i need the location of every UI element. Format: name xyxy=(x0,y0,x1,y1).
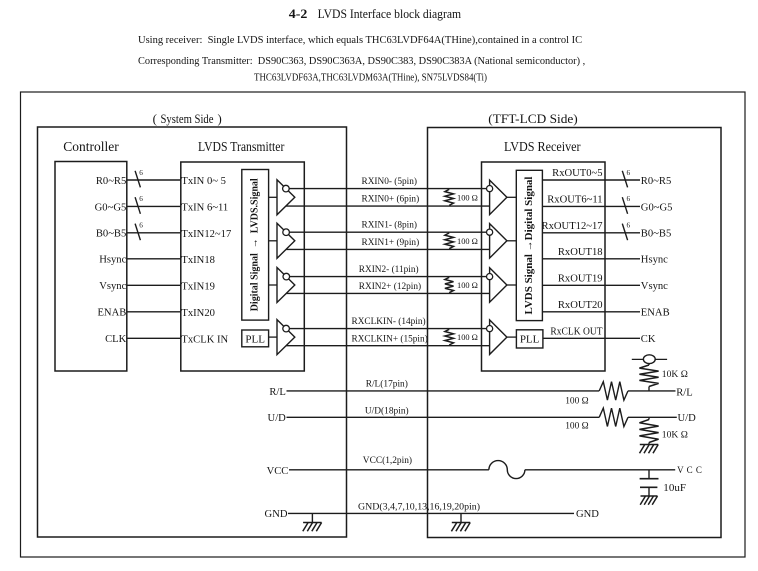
wire RXIN0+ xyxy=(286,205,490,207)
driver Q4: LVDS output buffer 4 (transmitter) xyxy=(269,320,295,355)
resistor R3: 100 ohm termination xyxy=(445,277,454,292)
svg-text:R/L: R/L xyxy=(269,387,285,398)
pin label TxIN20 xyxy=(181,308,215,319)
svg-text:U/D: U/D xyxy=(678,413,697,424)
pin label RxOUT18 xyxy=(558,247,603,258)
pin label RxOUT20 xyxy=(558,300,603,311)
wire Hsync (controller to TxIN18) xyxy=(127,258,181,260)
pin label RxCLK OUT xyxy=(550,327,603,338)
svg-text:Controller: Controller xyxy=(63,140,119,155)
svg-text:10uF: 10uF xyxy=(663,483,686,494)
svg-text:GND(3,4,7,10,13,16,19,20pin): GND(3,4,7,10,13,16,19,20pin) xyxy=(358,501,480,512)
svg-text:6: 6 xyxy=(139,195,143,203)
bus width slash 6 on R0~R5 xyxy=(135,169,143,188)
resistor R8: 10K ohm pull-down on U/D xyxy=(639,417,658,442)
value label 100 ohm (R6) xyxy=(565,421,588,431)
pin label RXIN0+ (6pin) xyxy=(362,194,420,205)
wire RxOUT18 to Hsync xyxy=(542,258,640,260)
node label G0~G5 xyxy=(641,202,673,213)
block: LVDS Transmitter xyxy=(181,140,304,371)
node label VCC (left) xyxy=(267,466,289,477)
svg-text:System Side: System Side xyxy=(161,112,214,126)
svg-text:PLL: PLL xyxy=(245,333,265,345)
node label ENAB xyxy=(641,308,670,319)
svg-text:100 Ω: 100 Ω xyxy=(457,281,478,290)
ground (below R8) xyxy=(640,443,659,454)
wire RXCLKIN- xyxy=(289,328,486,330)
svg-text:RxOUT20: RxOUT20 xyxy=(558,300,603,311)
block: TFT-LCD Side xyxy=(428,112,722,538)
resistor R7: 10K ohm pull-up on R/L xyxy=(639,364,658,391)
svg-text:CLK: CLK xyxy=(105,334,127,345)
wire G0~G5 (controller to TxIN 6~11) xyxy=(127,205,181,207)
svg-text:Vsync: Vsync xyxy=(99,281,126,292)
svg-text:6: 6 xyxy=(627,169,631,177)
svg-text:RXCLKIN- (14pin): RXCLKIN- (14pin) xyxy=(352,316,426,327)
svg-text:RXIN1- (8pin): RXIN1- (8pin) xyxy=(362,220,418,231)
wire GND (3,4,7,10,13,16,19,20pin) xyxy=(288,512,574,514)
svg-text:Digital Signal → LVDS.Signal: Digital Signal → LVDS.Signal xyxy=(249,178,261,311)
svg-text:100 Ω: 100 Ω xyxy=(457,333,478,342)
svg-text:(TFT-LCD Side): (TFT-LCD Side) xyxy=(488,112,578,126)
wire RXIN0- xyxy=(289,188,486,190)
svg-text:ENAB: ENAB xyxy=(97,308,126,319)
svg-text:R0~R5: R0~R5 xyxy=(96,176,126,187)
svg-text:RxOUT12~17: RxOUT12~17 xyxy=(542,221,603,232)
node label GND (left) xyxy=(265,509,288,520)
wire RXIN1+ xyxy=(286,248,490,250)
driver Q2: LVDS output buffer 2 (transmitter) xyxy=(269,223,295,258)
svg-text:G0~G5: G0~G5 xyxy=(641,202,673,213)
svg-text:(: ( xyxy=(153,112,157,126)
svg-text:TxIN20: TxIN20 xyxy=(181,308,215,319)
svg-text:): ) xyxy=(218,112,222,126)
wire ENAB (controller to TxIN20) xyxy=(127,311,181,313)
bus width slash 6 on B0~B5 xyxy=(622,222,630,241)
svg-text:Corresponding Transmitter: DS: Corresponding Transmitter: DS90C363, DS9… xyxy=(138,56,585,67)
svg-text:Hsync: Hsync xyxy=(99,255,126,266)
terminal: pull-up tap (circle) xyxy=(632,355,667,364)
driver Q1: LVDS output buffer 1 (transmitter) xyxy=(269,180,295,215)
svg-text:VCC(1,2pin): VCC(1,2pin) xyxy=(363,455,412,466)
svg-text:G0~G5: G0~G5 xyxy=(95,202,127,213)
pin label RXCLKIN- (14pin) xyxy=(352,316,426,327)
wire RxOUT0~5 to R0~R5 xyxy=(542,179,640,181)
node label Hsync xyxy=(641,255,668,266)
wire R/L (17pin) xyxy=(287,390,676,392)
ground (below C1) xyxy=(640,487,657,505)
pin label U/D(18pin) xyxy=(365,406,409,417)
wire RxCLK OUT to CK xyxy=(543,337,640,339)
node label R/L (left) xyxy=(269,387,285,398)
pin label RXIN1- (8pin) xyxy=(362,220,418,231)
value label 10K ohm (R7) xyxy=(662,369,688,380)
block: Controller xyxy=(55,140,127,371)
receiver buffer Q5 (LVDS input) xyxy=(487,180,517,215)
wire RxOUT12~17 to B0~B5 xyxy=(542,232,640,234)
svg-text:100 Ω: 100 Ω xyxy=(565,421,588,431)
svg-text:6: 6 xyxy=(627,222,631,230)
pin label RxOUT6~11 xyxy=(547,195,602,206)
svg-text:R/L: R/L xyxy=(676,388,692,399)
node label Vsync xyxy=(641,281,668,292)
value label 10K ohm (R8) xyxy=(662,430,688,441)
svg-text:R0~R5: R0~R5 xyxy=(641,176,671,187)
wire RXIN1- xyxy=(289,231,486,233)
ground (TFT-LCD side, on GND wire) xyxy=(451,513,470,531)
svg-text:LVDS Transmitter: LVDS Transmitter xyxy=(198,140,285,155)
value label 100 ohm (R4) xyxy=(457,333,478,342)
svg-text:6: 6 xyxy=(139,222,143,230)
bus width slash 6 on B0~B5 xyxy=(135,222,143,241)
svg-text:RxCLK OUT: RxCLK OUT xyxy=(550,327,603,338)
resistor R6: 100 ohm series (U/D) xyxy=(599,408,628,426)
svg-text:B0~B5: B0~B5 xyxy=(96,229,126,240)
resistor R4: 100 ohm termination xyxy=(445,329,454,345)
svg-text:RxOUT19: RxOUT19 xyxy=(558,274,603,285)
svg-text:GND: GND xyxy=(576,509,599,520)
svg-text:6: 6 xyxy=(139,169,143,177)
value label 100 ohm (R5) xyxy=(565,396,588,406)
node label Vsync xyxy=(99,281,126,292)
svg-text:RxOUT0~5: RxOUT0~5 xyxy=(552,168,602,179)
svg-text:TxIN 6~11: TxIN 6~11 xyxy=(181,203,228,214)
node label GND (right) xyxy=(576,509,599,520)
svg-text:RXIN2+ (12pin): RXIN2+ (12pin) xyxy=(359,281,421,292)
svg-text:RXIN0- (5pin): RXIN0- (5pin) xyxy=(362,176,418,187)
node label CLK xyxy=(105,334,127,345)
converter U2: LVDS Signal to Digital Signal xyxy=(516,170,542,320)
pin label TxIN12~17 xyxy=(181,229,231,240)
node label CK xyxy=(641,334,656,345)
value label 100 ohm (R3) xyxy=(457,281,478,290)
receiver buffer Q8 (LVDS input) xyxy=(487,320,517,355)
node label Hsync xyxy=(99,255,126,266)
svg-text:100 Ω: 100 Ω xyxy=(565,396,588,406)
node label G0~G5 xyxy=(95,202,127,213)
svg-text:TxIN12~17: TxIN12~17 xyxy=(181,229,231,240)
wire RxOUT6~11 to G0~G5 xyxy=(542,205,640,207)
receiver buffer Q7 (LVDS input) xyxy=(487,268,517,302)
pin label RXIN2- (11pin) xyxy=(359,264,419,275)
pin label VCC(1,2pin) xyxy=(363,455,412,466)
svg-text:Hsync: Hsync xyxy=(641,255,668,266)
node label U/D (left) xyxy=(268,413,287,424)
wire RXIN2+ xyxy=(286,292,489,294)
svg-text:RXCLKIN+ (15pin): RXCLKIN+ (15pin) xyxy=(352,333,428,344)
value label 10uF (C1) xyxy=(663,483,686,494)
value label 100 ohm (R2) xyxy=(457,237,478,246)
pin label RXCLKIN+ (15pin) xyxy=(352,333,428,344)
wire Vsync (controller to TxIN19) xyxy=(127,284,181,286)
wire RxOUT20 to ENAB xyxy=(542,311,640,313)
driver Q3: LVDS output buffer 3 (transmitter) xyxy=(269,268,295,303)
svg-text:RXIN1+ (9pin): RXIN1+ (9pin) xyxy=(362,237,420,248)
svg-text:R/L(17pin): R/L(17pin) xyxy=(366,378,408,389)
bus width slash 6 on G0~G5 xyxy=(622,195,630,214)
svg-text:GND: GND xyxy=(265,509,288,520)
block: System Side xyxy=(38,112,347,537)
wire B0~B5 (controller to TxIN12~17) xyxy=(127,232,181,234)
pin label RxOUT19 xyxy=(558,274,603,285)
pin label RxOUT0~5 xyxy=(552,168,602,179)
svg-text:Using receiver: Single LVDS i: Using receiver: Single LVDS interface, w… xyxy=(138,35,582,46)
node label B0~B5 xyxy=(96,229,126,240)
resistor R2: 100 ohm termination xyxy=(445,233,454,249)
node label R/L (right) xyxy=(676,388,692,399)
svg-text:ENAB: ENAB xyxy=(641,308,670,319)
node label R0~R5 xyxy=(96,176,126,187)
pin label RXIN2+ (12pin) xyxy=(359,281,421,292)
svg-text:TxIN19: TxIN19 xyxy=(181,281,215,292)
pin label R/L(17pin) xyxy=(366,378,408,389)
svg-text:10K Ω: 10K Ω xyxy=(662,430,688,441)
svg-text:CK: CK xyxy=(641,334,656,345)
block: LVDS Receiver xyxy=(482,140,606,371)
svg-text:RxOUT6~11: RxOUT6~11 xyxy=(547,195,602,206)
wire RxOUT19 to Vsync xyxy=(542,284,640,286)
svg-text:V C C: V C C xyxy=(677,465,702,475)
svg-text:LVDS Receiver: LVDS Receiver xyxy=(504,140,581,155)
bus width slash 6 on R0~R5 xyxy=(622,169,630,188)
svg-text:100 Ω: 100 Ω xyxy=(457,237,478,246)
svg-text:TxIN 0~ 5: TxIN 0~ 5 xyxy=(181,176,226,187)
pin label TxIN 0~ 5 xyxy=(181,176,226,187)
node label ENAB xyxy=(97,308,126,319)
pin label TxIN 6~11 xyxy=(181,203,228,214)
svg-text:RXIN0+ (6pin): RXIN0+ (6pin) xyxy=(362,194,420,205)
bus width slash 6 on G0~G5 xyxy=(135,195,143,214)
pin label RXIN0- (5pin) xyxy=(362,176,418,187)
pin label TxCLK IN xyxy=(181,334,228,345)
pin label GND(3,4,7,10,13,16,19,20pin) xyxy=(358,501,480,512)
wire U/D (18pin) xyxy=(287,416,677,418)
svg-text:PLL: PLL xyxy=(520,334,540,346)
svg-text:4-2: 4-2 xyxy=(289,7,308,21)
svg-text:THC63LVDF63A,THC63LVDM63A(THin: THC63LVDF63A,THC63LVDM63A(THine), SN75LV… xyxy=(254,72,487,83)
ground (system side, on GND wire) xyxy=(303,513,322,531)
converter U1: Digital Signal to LVDS Signal xyxy=(242,170,269,321)
svg-text:RxOUT18: RxOUT18 xyxy=(558,247,603,258)
svg-text:U/D: U/D xyxy=(268,413,287,424)
pin label RXIN1+ (9pin) xyxy=(362,237,420,248)
PLL U4 (receiver) xyxy=(516,330,543,348)
resistor R5: 100 ohm series (R/L) xyxy=(599,382,628,400)
svg-text:10K Ω: 10K Ω xyxy=(662,369,688,380)
value label 100 ohm (R1) xyxy=(457,193,478,202)
resistor R1: 100 ohm termination xyxy=(445,189,454,205)
node label R0~R5 xyxy=(641,176,671,187)
svg-text:LVDS Interface block diagram: LVDS Interface block diagram xyxy=(318,7,462,21)
wire CLK (controller to TxCLK IN) xyxy=(127,337,181,339)
wire RXIN2- xyxy=(290,276,487,278)
node label V C C (right) xyxy=(677,465,702,475)
svg-text:TxCLK IN: TxCLK IN xyxy=(181,334,228,345)
svg-text:6: 6 xyxy=(627,195,631,203)
svg-text:B0~B5: B0~B5 xyxy=(641,229,671,240)
capacitor C1: 10uF decoupling xyxy=(640,470,659,488)
pin label RxOUT12~17 xyxy=(542,221,603,232)
svg-text:100 Ω: 100 Ω xyxy=(457,193,478,202)
svg-text:RXIN2- (11pin): RXIN2- (11pin) xyxy=(359,264,419,275)
svg-text:U/D(18pin): U/D(18pin) xyxy=(365,406,409,417)
wire RXCLKIN+ xyxy=(286,345,490,347)
wire R0~R5 (controller to TxIN 0~ 5) xyxy=(127,179,181,181)
pin label TxIN18 xyxy=(181,255,215,266)
svg-text:TxIN18: TxIN18 xyxy=(181,255,215,266)
PLL U3 (transmitter) xyxy=(242,330,269,347)
svg-text:VCC: VCC xyxy=(267,466,289,477)
node label U/D (right) xyxy=(678,413,697,424)
pin label TxIN19 xyxy=(181,281,215,292)
svg-text:Vsync: Vsync xyxy=(641,281,668,292)
receiver buffer Q6 (LVDS input) xyxy=(487,224,517,259)
svg-text:LVDS Signal →Digital Signal: LVDS Signal →Digital Signal xyxy=(523,177,535,315)
wire VCC (1,2pin) with crossover hop xyxy=(289,461,675,479)
node label B0~B5 xyxy=(641,229,671,240)
